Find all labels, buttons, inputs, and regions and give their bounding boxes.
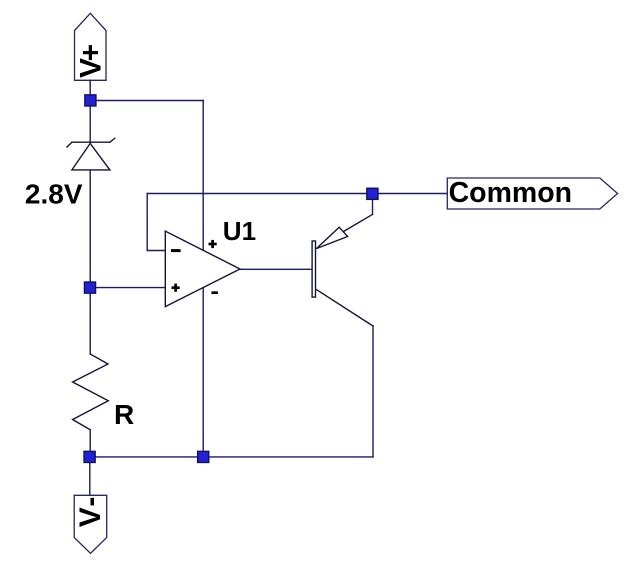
wire right riser to transistor collector xyxy=(372,326,374,457)
zener diode D1 xyxy=(67,138,115,170)
junction node E bottom middle xyxy=(198,451,209,462)
junction node C xyxy=(84,451,95,462)
wire vertical V+ power drop to op-amp xyxy=(202,101,204,251)
svg-text:U1: U1 xyxy=(223,216,256,246)
op-amp U1 inverting input minus mark xyxy=(171,249,181,252)
junction node B xyxy=(84,282,95,293)
wire V+ port to node A xyxy=(89,80,91,100)
port V- label text xyxy=(74,497,107,528)
svg-text:V+: V+ xyxy=(74,44,107,78)
transistor Q1 collector lead xyxy=(316,290,373,326)
svg-text:R: R xyxy=(114,399,134,430)
svg-text:Common: Common xyxy=(449,177,572,209)
resistor R body xyxy=(73,354,109,430)
wire emitter stub to node D xyxy=(372,194,374,215)
wire bottom rail xyxy=(90,456,373,458)
label 2.8V xyxy=(25,179,83,210)
wire op-amp output to transistor base xyxy=(240,268,311,270)
wire feedback vertical xyxy=(146,194,148,251)
op-amp U1 noninverting input plus mark xyxy=(172,284,180,292)
transistor Q1 emitter lead xyxy=(344,214,373,231)
port V+ xyxy=(75,13,107,80)
wire node B to op-amp noninverting input xyxy=(90,287,165,289)
svg-text:2.8V: 2.8V xyxy=(25,179,83,210)
wire node C to V- port xyxy=(89,457,91,495)
svg-text:V-: V- xyxy=(74,497,107,528)
wire to op-amp inverting input xyxy=(147,250,165,252)
label U1 xyxy=(223,216,256,246)
junction node A xyxy=(85,95,96,106)
port V+ label text xyxy=(74,44,107,78)
port Common xyxy=(447,178,617,209)
wire resistor bottom to node C xyxy=(89,430,91,457)
junction node D top right xyxy=(367,188,378,199)
wire top rail node A to power drop xyxy=(90,100,203,102)
transistor Q1 base bar xyxy=(312,241,315,297)
transistor Q1 emitter arrow xyxy=(316,227,347,248)
op-amp U1 positive supply plus mark xyxy=(209,240,217,248)
wire node A to zener cathode xyxy=(89,101,91,143)
label R xyxy=(114,399,134,430)
op-amp U1 negative supply minus mark xyxy=(211,291,218,294)
wire op-amp V- power drop to bottom rail xyxy=(202,288,204,457)
wire zener anode to node B xyxy=(89,170,91,288)
port Common label text xyxy=(449,177,572,209)
port V- xyxy=(74,495,107,553)
op-amp U1 triangle xyxy=(165,231,240,307)
wire node B to resistor top xyxy=(89,288,91,354)
wire feedback horizontal to Common port xyxy=(147,193,447,195)
